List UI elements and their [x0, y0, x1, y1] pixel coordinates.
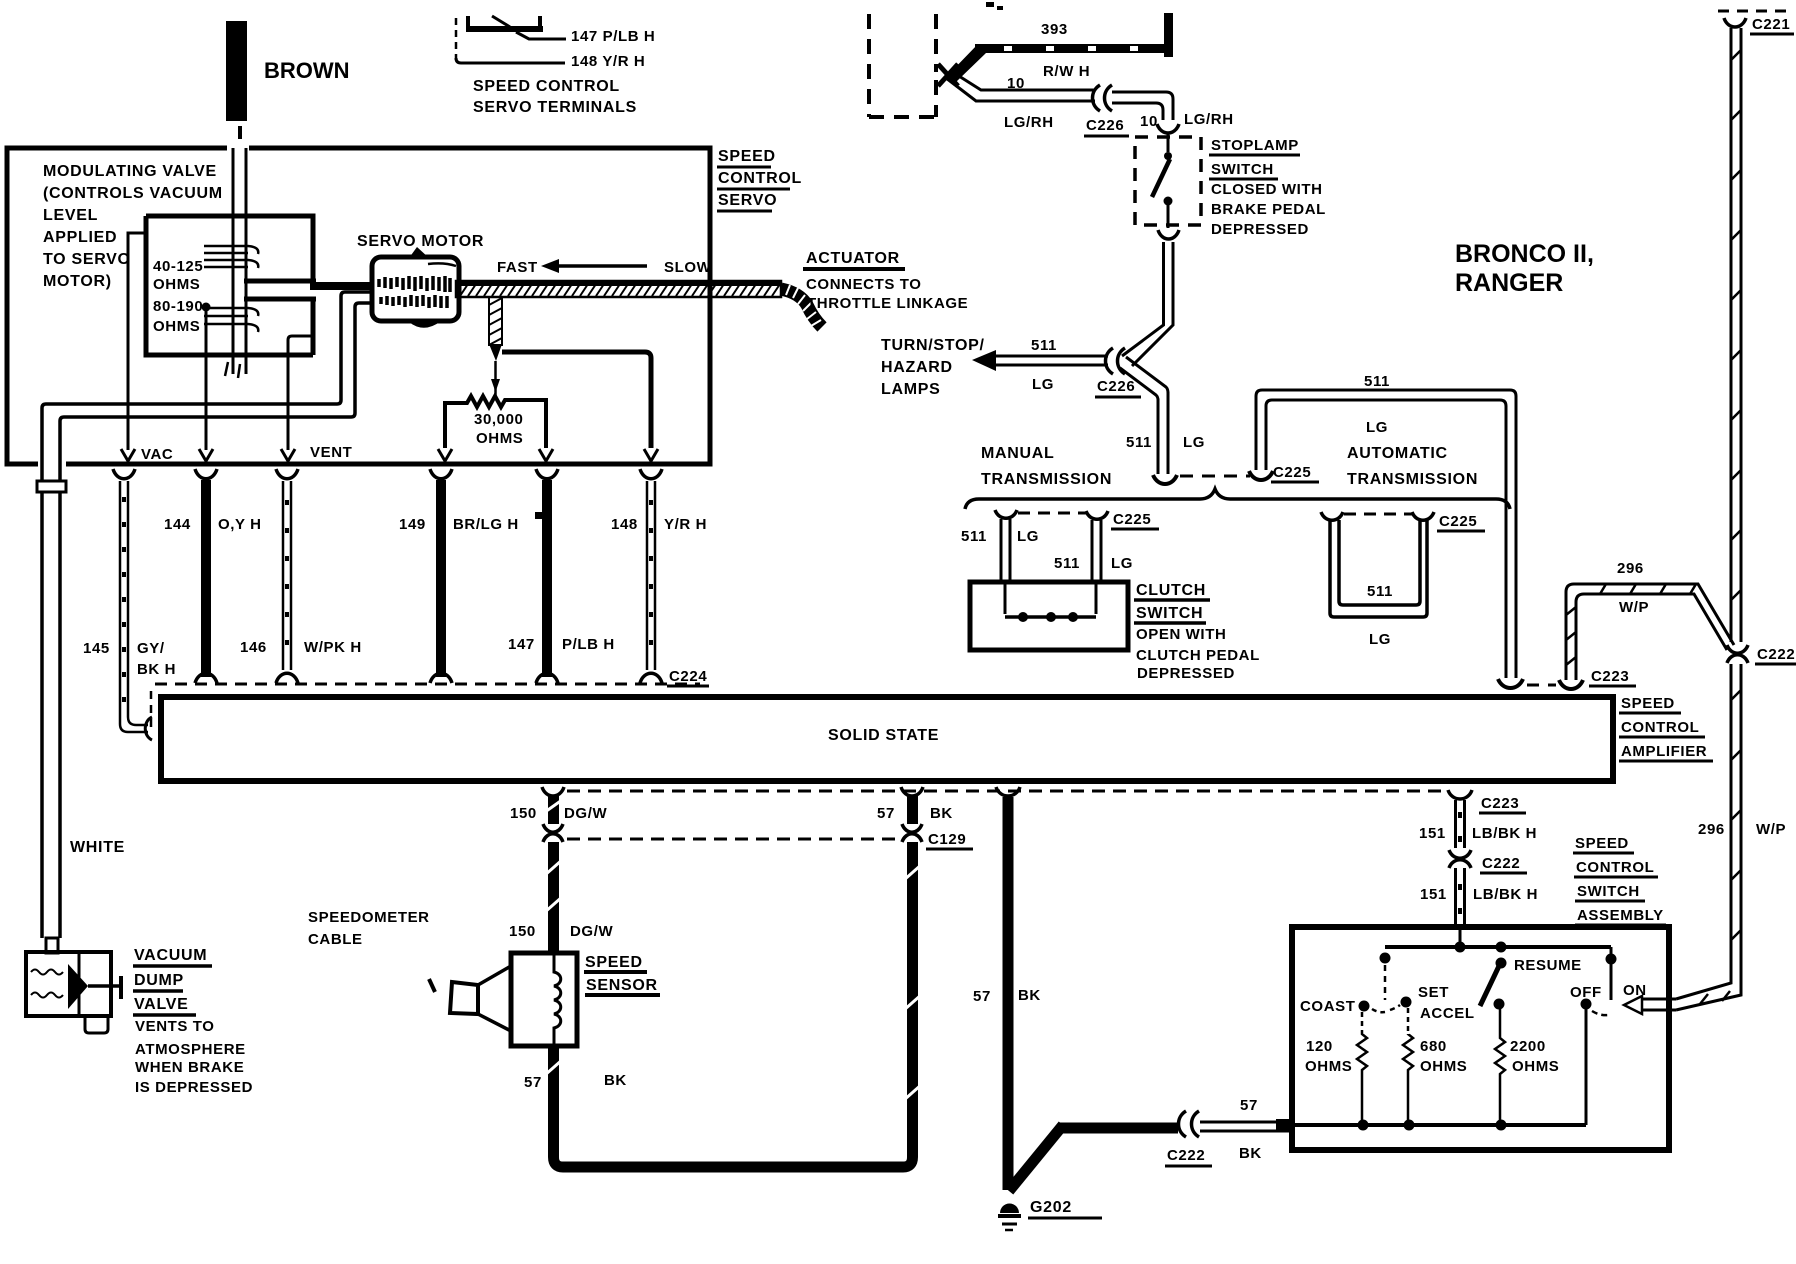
svg-text:TO SERVO: TO SERVO [43, 251, 131, 268]
svg-text:TURN/STOP/: TURN/STOP/ [881, 337, 985, 354]
svg-text:OHMS: OHMS [1305, 1058, 1352, 1075]
svg-text:ACTUATOR: ACTUATOR [806, 250, 900, 267]
svg-text:511: 511 [1031, 337, 1057, 354]
svg-text:148: 148 [611, 516, 638, 533]
svg-text:SPEED: SPEED [718, 148, 776, 165]
svg-text:LG: LG [1183, 434, 1205, 451]
svg-text:C222: C222 [1757, 646, 1795, 663]
svg-text:DUMP: DUMP [134, 972, 184, 989]
svg-text:LG: LG [1366, 419, 1388, 436]
svg-text:147 P/LB H: 147 P/LB H [571, 28, 655, 45]
svg-text:(CONTROLS VACUUM: (CONTROLS VACUUM [43, 185, 223, 202]
svg-text:VENTS TO: VENTS TO [135, 1018, 215, 1035]
svg-text:BRONCO II,: BRONCO II, [1455, 240, 1594, 268]
svg-text:148 Y/R H: 148 Y/R H [571, 53, 645, 70]
svg-text:511: 511 [1367, 583, 1393, 600]
svg-text:CLUTCH PEDAL: CLUTCH PEDAL [1136, 647, 1260, 664]
svg-text:CONNECTS TO: CONNECTS TO [806, 276, 922, 293]
svg-text:OPEN WITH: OPEN WITH [1136, 626, 1226, 643]
svg-text:WHEN BRAKE: WHEN BRAKE [135, 1059, 244, 1076]
svg-text:147: 147 [508, 636, 535, 653]
svg-text:SERVO TERMINALS: SERVO TERMINALS [473, 99, 637, 116]
svg-text:40-125: 40-125 [153, 258, 203, 275]
svg-text:LAMPS: LAMPS [881, 381, 941, 398]
svg-text:C224: C224 [669, 668, 707, 685]
svg-text:SPEED: SPEED [1575, 835, 1629, 852]
svg-text:FAST: FAST [497, 259, 538, 276]
svg-text:151: 151 [1420, 886, 1447, 903]
svg-text:SWITCH: SWITCH [1211, 161, 1274, 178]
svg-text:SPEED CONTROL: SPEED CONTROL [473, 78, 620, 95]
svg-text:MOTOR): MOTOR) [43, 273, 112, 290]
svg-text:W/P: W/P [1756, 821, 1786, 838]
svg-text:APPLIED: APPLIED [43, 229, 117, 246]
svg-text:AMPLIFIER: AMPLIFIER [1621, 743, 1707, 760]
svg-text:C129: C129 [928, 831, 966, 848]
svg-text:BROWN: BROWN [264, 58, 350, 83]
svg-text:LG: LG [1111, 555, 1133, 572]
svg-text:SPEEDOMETER: SPEEDOMETER [308, 909, 430, 926]
svg-text:LG: LG [1369, 631, 1391, 648]
svg-text:C225: C225 [1439, 513, 1477, 530]
svg-text:VENT: VENT [310, 444, 352, 461]
svg-text:CABLE: CABLE [308, 931, 363, 948]
svg-text:296: 296 [1617, 560, 1644, 577]
svg-text:ATMOSPHERE: ATMOSPHERE [135, 1041, 246, 1058]
svg-text:511: 511 [1054, 555, 1080, 572]
svg-text:LB/BK H: LB/BK H [1472, 825, 1537, 842]
svg-text:296: 296 [1698, 821, 1725, 838]
svg-text:ASSEMBLY: ASSEMBLY [1577, 907, 1664, 924]
svg-text:151: 151 [1419, 825, 1446, 842]
svg-text:VACUUM: VACUUM [134, 947, 207, 964]
svg-text:511: 511 [1126, 434, 1152, 451]
svg-text:LG: LG [1032, 376, 1054, 393]
svg-text:150: 150 [509, 923, 536, 940]
svg-text:SOLID STATE: SOLID STATE [828, 727, 939, 744]
svg-text:Y/R H: Y/R H [664, 516, 707, 533]
svg-text:LG/RH: LG/RH [1184, 111, 1234, 128]
svg-text:C222: C222 [1482, 855, 1520, 872]
svg-text:ACCEL: ACCEL [1420, 1005, 1475, 1022]
svg-text:149: 149 [399, 516, 426, 533]
svg-text:OHMS: OHMS [153, 318, 200, 335]
svg-text:OHMS: OHMS [1512, 1058, 1559, 1075]
svg-text:C222: C222 [1167, 1147, 1205, 1164]
svg-text:COAST: COAST [1300, 998, 1356, 1015]
svg-text:511: 511 [1364, 373, 1390, 390]
svg-text:OHMS: OHMS [153, 276, 200, 293]
svg-text:RANGER: RANGER [1455, 269, 1563, 297]
svg-text:BK: BK [1018, 987, 1041, 1004]
svg-text:57: 57 [877, 805, 895, 822]
svg-text:C221: C221 [1752, 16, 1790, 33]
svg-text:SPEED: SPEED [1621, 695, 1675, 712]
svg-text:LG/RH: LG/RH [1004, 114, 1054, 131]
svg-text:C223: C223 [1481, 795, 1519, 812]
svg-text:2200: 2200 [1510, 1038, 1546, 1055]
svg-text:150: 150 [510, 805, 537, 822]
svg-text:CLOSED WITH: CLOSED WITH [1211, 181, 1323, 198]
svg-text:145: 145 [83, 640, 110, 657]
svg-text:TRANSMISSION: TRANSMISSION [1347, 471, 1478, 488]
svg-text:C226: C226 [1086, 117, 1124, 134]
svg-text:BK: BK [1239, 1145, 1262, 1162]
svg-text:BK: BK [604, 1072, 627, 1089]
svg-text:80-190: 80-190 [153, 298, 203, 315]
svg-text:120: 120 [1306, 1038, 1333, 1055]
svg-text:GY/: GY/ [137, 640, 165, 657]
svg-text:IS DEPRESSED: IS DEPRESSED [135, 1079, 253, 1096]
svg-text:C225: C225 [1113, 511, 1151, 528]
svg-text:OFF: OFF [1570, 984, 1602, 1001]
svg-text:DEPRESSED: DEPRESSED [1137, 665, 1235, 682]
svg-text:57: 57 [1240, 1097, 1258, 1114]
svg-text:393: 393 [1041, 21, 1068, 38]
svg-text:680: 680 [1420, 1038, 1447, 1055]
svg-text:STOPLAMP: STOPLAMP [1211, 137, 1299, 154]
svg-text:MODULATING VALVE: MODULATING VALVE [43, 163, 217, 180]
svg-text:C226: C226 [1097, 378, 1135, 395]
svg-text:BK H: BK H [137, 661, 176, 678]
svg-text:SENSOR: SENSOR [586, 977, 658, 994]
svg-text:LG: LG [1017, 528, 1039, 545]
svg-text:LEVEL: LEVEL [43, 207, 98, 224]
svg-text:DEPRESSED: DEPRESSED [1211, 221, 1309, 238]
svg-text:C225: C225 [1273, 464, 1311, 481]
svg-text:W/PK H: W/PK H [304, 639, 362, 656]
svg-text:511: 511 [961, 528, 987, 545]
svg-text:BR/LG H: BR/LG H [453, 516, 519, 533]
svg-text:G202: G202 [1030, 1199, 1072, 1216]
svg-text:57: 57 [524, 1074, 542, 1091]
svg-text:MANUAL: MANUAL [981, 445, 1055, 462]
svg-text:HAZARD: HAZARD [881, 359, 953, 376]
svg-text:DG/W: DG/W [564, 805, 607, 822]
svg-text:146: 146 [240, 639, 267, 656]
svg-text:BK: BK [930, 805, 953, 822]
svg-text:CONTROL: CONTROL [1576, 859, 1654, 876]
svg-text:AUTOMATIC: AUTOMATIC [1347, 445, 1448, 462]
svg-text:O,Y H: O,Y H [218, 516, 262, 533]
svg-text:10: 10 [1007, 75, 1025, 92]
svg-text:30,000: 30,000 [474, 411, 523, 428]
svg-text:CONTROL: CONTROL [1621, 719, 1699, 736]
svg-text:SWITCH: SWITCH [1577, 883, 1640, 900]
svg-text:LB/BK H: LB/BK H [1473, 886, 1538, 903]
svg-text:144: 144 [164, 516, 191, 533]
svg-text:VALVE: VALVE [134, 996, 188, 1013]
svg-text:SLOW: SLOW [664, 259, 712, 276]
svg-text:DG/W: DG/W [570, 923, 613, 940]
svg-text:CLUTCH: CLUTCH [1136, 582, 1206, 599]
svg-text:SERVO MOTOR: SERVO MOTOR [357, 233, 484, 250]
svg-text:C223: C223 [1591, 668, 1629, 685]
svg-text:57: 57 [973, 988, 991, 1005]
svg-text:WHITE: WHITE [70, 839, 125, 856]
svg-text:CONTROL: CONTROL [718, 170, 802, 187]
svg-text:VAC: VAC [141, 446, 173, 463]
svg-text:THROTTLE LINKAGE: THROTTLE LINKAGE [807, 295, 968, 312]
svg-text:SERVO: SERVO [718, 192, 777, 209]
svg-text:P/LB H: P/LB H [562, 636, 615, 653]
svg-text:SPEED: SPEED [585, 954, 643, 971]
svg-text:RESUME: RESUME [1514, 957, 1582, 974]
svg-text:10: 10 [1140, 113, 1158, 130]
svg-text:TRANSMISSION: TRANSMISSION [981, 471, 1112, 488]
svg-text:W/P: W/P [1619, 599, 1649, 616]
svg-text:BRAKE PEDAL: BRAKE PEDAL [1211, 201, 1326, 218]
svg-text:SET: SET [1418, 984, 1449, 1001]
svg-text:OHMS: OHMS [1420, 1058, 1467, 1075]
svg-text:R/W H: R/W H [1043, 63, 1090, 80]
svg-text:OHMS: OHMS [476, 430, 523, 447]
svg-text:SWITCH: SWITCH [1136, 605, 1203, 622]
